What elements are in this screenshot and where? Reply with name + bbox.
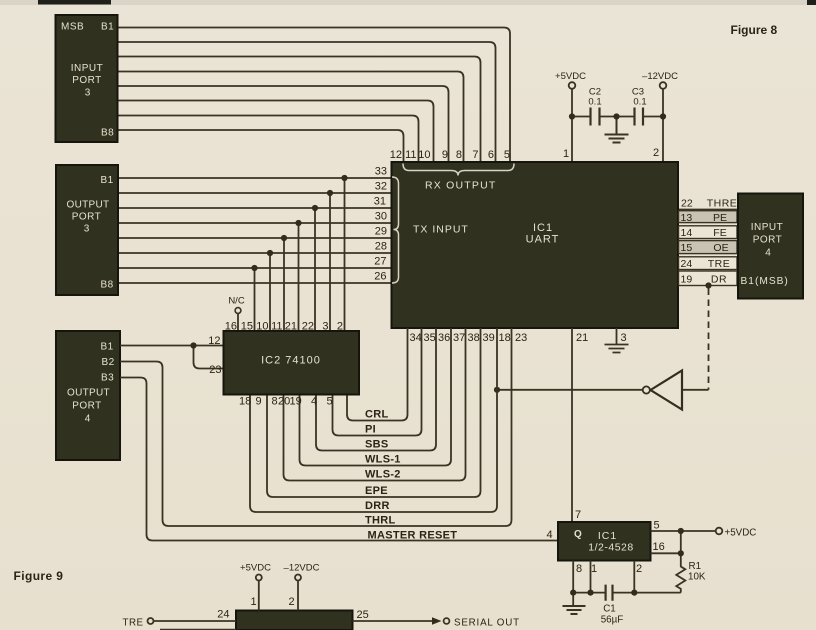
terminal +5VDC at 4528 <box>716 528 723 535</box>
wire THRL from output port4 B2 to UART pin 23 <box>120 362 506 527</box>
wire 4528 pin 16 <box>651 552 681 554</box>
svg-text:B3: B3 <box>101 373 114 384</box>
wire B6 input port3 to UART pin 10 <box>118 101 434 163</box>
svg-text:0.1: 0.1 <box>588 97 601 108</box>
svg-text:13: 13 <box>681 212 693 224</box>
svg-text:2: 2 <box>337 321 343 333</box>
svg-text:IC2 74100: IC2 74100 <box>261 355 321 367</box>
wire MASTER RESET from output port4 B3 to 4528 pin 4 <box>120 378 558 541</box>
svg-text:34: 34 <box>410 332 422 344</box>
wire UART pin 18 <box>491 328 497 512</box>
wire UART pin 21 to 4528 pin 7 <box>571 328 573 522</box>
wire 30 output port3 to UART pin 30 <box>118 222 392 224</box>
wire inverter input <box>682 389 709 391</box>
svg-text:OUTPUT: OUTPUT <box>67 200 110 211</box>
svg-text:14: 14 <box>681 227 693 239</box>
wire 26 output port3 to UART pin 26 <box>118 282 392 284</box>
terminal SERIAL OUT <box>444 618 450 624</box>
svg-text:9: 9 <box>442 149 448 161</box>
svg-text:IC1: IC1 <box>598 530 617 542</box>
svg-text:0.1: 0.1 <box>633 97 646 108</box>
svg-text:R1: R1 <box>689 561 702 572</box>
svg-text:7: 7 <box>575 509 581 521</box>
svg-text:+5VDC: +5VDC <box>725 528 757 539</box>
svg-text:15: 15 <box>241 321 253 333</box>
svg-text:B8: B8 <box>101 280 114 291</box>
svg-text:DR: DR <box>711 274 727 286</box>
svg-text:PORT: PORT <box>72 75 102 86</box>
wire UART pin 2 to -12VDC <box>662 89 664 162</box>
svg-text:Figure 9: Figure 9 <box>14 569 64 583</box>
ground at 4528 pin 8 <box>563 606 586 614</box>
IC U7: IC1 1/2-4528 <box>558 522 651 561</box>
svg-text:28: 28 <box>375 241 387 253</box>
svg-text:PORT: PORT <box>72 212 102 223</box>
wire UART pin 1 to +5VDC <box>571 89 573 162</box>
svg-text:10: 10 <box>256 321 268 333</box>
wire drop to IC2 pin 15 <box>254 268 256 331</box>
svg-text:5: 5 <box>654 520 660 532</box>
N/C terminal <box>235 308 241 314</box>
junction <box>267 250 273 256</box>
wire DRR IC2 pin 18 to UART pin 18 <box>250 395 491 513</box>
wire UART pin 3 to ground <box>605 328 629 353</box>
terminal -12VDC <box>660 82 667 89</box>
svg-text:–12VDC: –12VDC <box>284 563 320 574</box>
svg-text:26: 26 <box>374 271 386 283</box>
svg-text:5: 5 <box>327 396 333 408</box>
terminal TRE <box>148 618 154 624</box>
svg-text:4: 4 <box>765 248 771 259</box>
IC U2: INPUT PORT 3 connector <box>56 15 118 142</box>
svg-text:1: 1 <box>250 596 256 608</box>
IC U6: IC2 74100 <box>224 331 360 395</box>
wire B8 input port3 to UART pin 12 <box>118 130 404 162</box>
wire drop to IC2 pin 10 <box>269 253 271 331</box>
resistor R1 <box>676 531 685 593</box>
wire bypass rail <box>572 116 663 118</box>
brace RX OUTPUT pins <box>403 164 514 176</box>
svg-text:21: 21 <box>576 332 588 344</box>
svg-text:11: 11 <box>271 321 282 333</box>
svg-text:CRL: CRL <box>365 409 389 421</box>
svg-text:37: 37 <box>453 332 465 344</box>
IC U1: IC1 UART <box>392 162 679 328</box>
svg-text:INPUT: INPUT <box>71 63 104 74</box>
pin box 15 OE <box>679 241 738 254</box>
wire 4528 pin 5 to +5VDC <box>651 530 716 532</box>
svg-text:38: 38 <box>468 332 480 344</box>
svg-text:Figure 8: Figure 8 <box>731 23 778 37</box>
wire drop to IC2 pin 11 <box>283 238 285 331</box>
svg-text:27: 27 <box>374 256 386 268</box>
svg-text:3: 3 <box>322 321 328 333</box>
svg-text:C1: C1 <box>603 604 616 615</box>
wire fig9 pin 1 <box>258 581 260 611</box>
terminal -12VDC fig9 <box>295 575 301 581</box>
junction <box>569 113 575 119</box>
svg-text:3: 3 <box>85 88 91 99</box>
wire B3 input port3 to UART pin 7 <box>118 57 481 163</box>
svg-text:INPUT: INPUT <box>751 222 784 233</box>
IC U4: OUTPUT PORT 4 connector <box>56 331 120 460</box>
svg-text:1/2-4528: 1/2-4528 <box>588 542 633 554</box>
wire timing rail <box>573 561 681 606</box>
junction DR node <box>705 282 711 288</box>
junction <box>678 550 684 556</box>
svg-text:18: 18 <box>239 396 251 408</box>
junction <box>341 175 347 181</box>
junction <box>295 220 301 226</box>
svg-text:Q: Q <box>574 529 582 540</box>
pin box 24 TRE <box>679 257 738 270</box>
svg-text:7: 7 <box>472 149 478 161</box>
svg-text:4: 4 <box>85 414 91 425</box>
svg-text:23: 23 <box>209 364 221 376</box>
wire inverter output to pin 18 net <box>497 389 643 391</box>
svg-text:8: 8 <box>272 396 278 408</box>
svg-text:19: 19 <box>290 396 302 408</box>
svg-text:22: 22 <box>681 198 693 210</box>
svg-text:10K: 10K <box>688 572 706 583</box>
svg-text:4: 4 <box>546 529 552 541</box>
svg-text:4: 4 <box>311 396 317 408</box>
capacitor C2 plates <box>591 108 600 126</box>
wire PI IC2 pin 4 to UART pin 35 <box>333 328 422 436</box>
svg-text:8: 8 <box>576 563 582 575</box>
svg-text:33: 33 <box>375 166 387 178</box>
IC U8: figure 9 chip <box>236 611 353 630</box>
wire drop to IC2 pin 21 <box>298 223 300 331</box>
pin box 19 DR <box>679 271 738 286</box>
svg-text:WLS-1: WLS-1 <box>365 454 401 466</box>
svg-text:35: 35 <box>424 332 436 344</box>
junction <box>678 528 684 534</box>
svg-text:2: 2 <box>653 147 659 159</box>
junction <box>494 387 500 393</box>
capacitor C3 plates <box>635 108 644 126</box>
inverter buffer <box>651 371 683 410</box>
svg-text:B1: B1 <box>101 22 114 33</box>
svg-text:EPE: EPE <box>365 485 388 497</box>
wire 32 output port3 to UART pin 32 <box>118 192 392 194</box>
terminal +5VDC fig9 <box>256 575 262 581</box>
svg-text:24: 24 <box>681 258 693 270</box>
svg-text:+5VDC: +5VDC <box>240 563 271 574</box>
junction <box>613 113 619 119</box>
svg-text:–12VDC: –12VDC <box>642 71 678 82</box>
svg-text:6: 6 <box>488 149 494 161</box>
svg-text:B1(MSB): B1(MSB) <box>741 276 789 287</box>
wire B5 input port3 to UART pin 9 <box>118 86 449 162</box>
svg-text:UART: UART <box>526 234 560 246</box>
brace TX INPUT pins <box>392 177 399 283</box>
svg-text:SBS: SBS <box>365 439 389 451</box>
svg-text:RX OUTPUT: RX OUTPUT <box>425 180 496 192</box>
wire EPE IC2 pin 9 to UART pin 39 <box>267 328 481 497</box>
wire WLS-2 IC2 pin 8 to UART pin 38 <box>284 328 466 481</box>
svg-text:MASTER RESET: MASTER RESET <box>368 530 458 542</box>
svg-text:WLS-2: WLS-2 <box>365 469 401 481</box>
svg-text:30: 30 <box>375 211 387 223</box>
wire to IC2 pin 23 <box>194 346 224 369</box>
svg-text:12: 12 <box>390 149 402 161</box>
wire THRE pin 22 <box>678 209 738 211</box>
wire drop to IC2 pin 22 <box>314 208 316 331</box>
svg-text:PE: PE <box>713 212 727 224</box>
wire 27 output port3 to UART pin 27 <box>118 267 392 269</box>
svg-text:+5VDC: +5VDC <box>555 71 586 82</box>
wire UART pin 23 <box>506 328 512 526</box>
junction <box>251 265 257 271</box>
junction <box>631 590 637 596</box>
junction <box>190 342 196 348</box>
wire B1 input port3 to UART pin 5 <box>118 28 511 163</box>
svg-text:SERIAL OUT: SERIAL OUT <box>454 618 520 629</box>
IC U5: INPUT PORT 4 connector <box>738 194 803 299</box>
svg-text:19: 19 <box>681 274 693 286</box>
svg-text:TX INPUT: TX INPUT <box>413 224 469 236</box>
svg-text:56µF: 56µF <box>601 615 624 626</box>
wire WLS-1 IC2 pin 20 to UART pin 37 <box>300 328 452 466</box>
svg-text:N/C: N/C <box>228 296 245 307</box>
IC U3: OUTPUT PORT 3 connector <box>56 165 118 295</box>
svg-text:31: 31 <box>374 196 386 208</box>
svg-text:12: 12 <box>208 335 220 347</box>
junction <box>327 190 333 196</box>
svg-text:THRL: THRL <box>365 515 396 527</box>
junction <box>281 235 287 241</box>
svg-text:15: 15 <box>681 242 693 254</box>
svg-text:8: 8 <box>456 149 462 161</box>
pin box 13 PE <box>679 211 738 223</box>
svg-text:16: 16 <box>225 321 237 333</box>
svg-text:OE: OE <box>713 242 728 254</box>
wire 28 output port3 to UART pin 28 <box>118 252 392 254</box>
dashed wire DR to inverter input <box>708 289 710 390</box>
svg-text:PORT: PORT <box>753 235 783 246</box>
svg-text:1: 1 <box>563 148 569 160</box>
arrow serial out <box>432 617 442 624</box>
svg-text:2: 2 <box>636 563 642 575</box>
svg-text:2: 2 <box>288 596 294 608</box>
svg-text:IC1: IC1 <box>533 222 553 234</box>
svg-text:16: 16 <box>653 541 665 553</box>
wire 29 output port3 to UART pin 29 <box>118 237 392 239</box>
wire B7 input port3 to UART pin 11 <box>118 116 419 163</box>
svg-text:B1: B1 <box>101 175 114 186</box>
svg-text:39: 39 <box>483 332 495 344</box>
pin box 14 FE <box>679 226 738 239</box>
svg-text:24: 24 <box>217 609 229 621</box>
wire CRL IC2 pin 5 to UART pin 34 <box>347 328 408 421</box>
wire fig9 pin 12 stub <box>160 629 236 630</box>
svg-text:21: 21 <box>285 321 297 333</box>
svg-text:36: 36 <box>438 332 450 344</box>
svg-text:THRE: THRE <box>707 198 738 210</box>
wire 31 output port3 to UART pin 31 <box>118 207 392 209</box>
wire TRE to fig9 chip <box>154 620 237 622</box>
svg-text:25: 25 <box>357 609 369 621</box>
svg-text:1: 1 <box>591 563 597 575</box>
svg-text:TRE: TRE <box>708 258 731 270</box>
svg-text:FE: FE <box>713 227 726 239</box>
svg-text:5: 5 <box>504 149 510 161</box>
ground at bypass rail <box>605 117 629 143</box>
junction <box>570 590 576 596</box>
wire drop to IC2 pin 3 <box>329 193 331 331</box>
svg-text:MSB: MSB <box>61 22 84 33</box>
svg-text:3: 3 <box>84 224 90 235</box>
junction <box>660 113 666 119</box>
svg-text:B1: B1 <box>101 342 114 353</box>
svg-text:22: 22 <box>302 321 314 333</box>
wire SBS IC2 pin 19 to UART pin 36 <box>316 328 436 451</box>
wire fig9 pin 2 <box>297 581 299 611</box>
svg-text:OUTPUT: OUTPUT <box>67 388 110 399</box>
svg-text:PORT: PORT <box>72 401 102 412</box>
wire drop to IC2 pin 2 <box>344 178 346 331</box>
wire B4 input port3 to UART pin 8 <box>118 72 464 163</box>
wire output port4 B1 to IC2 pin 12 <box>120 345 224 347</box>
svg-text:20: 20 <box>278 396 290 408</box>
svg-text:32: 32 <box>375 181 387 193</box>
svg-text:PI: PI <box>365 424 376 436</box>
junction <box>587 590 593 596</box>
svg-text:DRR: DRR <box>365 500 390 512</box>
svg-text:11: 11 <box>405 149 416 161</box>
junction <box>312 205 318 211</box>
svg-text:29: 29 <box>375 226 387 238</box>
wire 33 output port3 to UART pin 33 <box>118 177 392 179</box>
wire B2 input port3 to UART pin 6 <box>118 42 496 162</box>
wire serial out <box>353 620 433 622</box>
wire N/C stub IC2 pin 16 <box>237 314 239 332</box>
capacitor C1 plates <box>606 585 613 601</box>
svg-text:3: 3 <box>621 332 627 344</box>
svg-text:10: 10 <box>418 149 430 161</box>
terminal +5VDC <box>569 82 576 89</box>
svg-text:9: 9 <box>256 396 262 408</box>
svg-text:TRE: TRE <box>123 618 144 629</box>
svg-text:B8: B8 <box>101 128 114 139</box>
svg-text:B2: B2 <box>102 357 115 368</box>
svg-text:18: 18 <box>499 332 511 344</box>
svg-text:23: 23 <box>515 332 527 344</box>
